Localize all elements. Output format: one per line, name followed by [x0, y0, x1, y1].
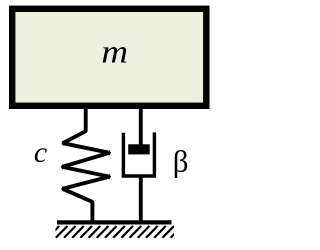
svg-text:β: β — [173, 143, 189, 178]
svg-text:c: c — [34, 136, 47, 169]
damper lower rod — [139, 176, 143, 222]
damper piston — [128, 144, 150, 154]
ground line — [57, 220, 172, 224]
ground hatching — [48, 226, 183, 238]
damper upper rod — [139, 106, 143, 150]
svg-text:m: m — [101, 33, 128, 70]
damper cylinder (cup) — [123, 132, 154, 176]
spring C1 (zigzag) — [61, 106, 111, 222]
mass block M1 — [12, 9, 206, 106]
